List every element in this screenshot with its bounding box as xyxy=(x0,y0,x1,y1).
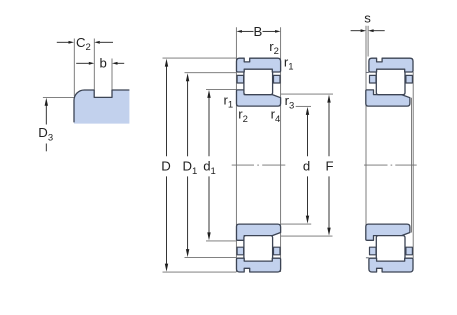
inner ring (bottom section) xyxy=(237,224,281,240)
s dimension right arrow xyxy=(373,30,384,32)
centerline right figure xyxy=(364,164,388,166)
s second extension line xyxy=(367,26,369,57)
cage right (right fig top) xyxy=(406,75,413,83)
cage right (right fig bottom) xyxy=(406,247,413,255)
outer ring (right fig bottom) xyxy=(369,258,413,272)
D3 line continuation xyxy=(45,144,47,152)
D bottom extension line xyxy=(163,271,237,273)
b dimension right arrow xyxy=(117,62,124,64)
cage left (bottom section) xyxy=(237,247,244,255)
D1 bottom extension line xyxy=(185,257,237,259)
svg-text:d1: d1 xyxy=(203,159,216,177)
inner ring right face line xyxy=(411,98,413,233)
svg-text:r1: r1 xyxy=(224,93,234,111)
roller (top section) xyxy=(244,69,273,95)
connector line top xyxy=(366,71,369,73)
svg-text:D1: D1 xyxy=(183,159,198,177)
cage left (top section) xyxy=(237,75,244,83)
svg-text:D3: D3 xyxy=(38,125,53,143)
d top extension line xyxy=(296,105,311,107)
C2 dimension left arrow xyxy=(57,41,69,43)
svg-text:B: B xyxy=(254,24,263,39)
C2/b middle extension line xyxy=(93,39,95,90)
roller (bottom section) xyxy=(244,236,273,262)
d1 dimension line xyxy=(208,98,210,157)
B left extension line xyxy=(235,27,237,272)
svg-text:r4: r4 xyxy=(271,107,281,125)
inner ring displaced left (right fig bottom) xyxy=(366,224,410,240)
outer ring right face line xyxy=(412,72,414,258)
F bottom extension line xyxy=(281,235,333,237)
d1 bottom extension line xyxy=(206,240,236,242)
d dimension line xyxy=(307,115,309,157)
svg-text:D: D xyxy=(161,159,171,174)
b right extension line xyxy=(111,59,113,90)
D1 dimension line xyxy=(187,81,189,156)
svg-text:b: b xyxy=(100,55,107,70)
svg-text:d: d xyxy=(303,159,310,174)
svg-text:s: s xyxy=(364,10,371,25)
cage right (top section) xyxy=(274,75,281,83)
svg-text:r2: r2 xyxy=(269,39,279,57)
C2 left extension line xyxy=(73,39,75,97)
F top extension line xyxy=(281,93,333,95)
groove detail section outline xyxy=(74,90,129,122)
d1 top extension line xyxy=(206,88,236,90)
cage right (bottom section) xyxy=(274,247,281,255)
middle bottom section (mirrored) xyxy=(237,224,281,272)
inner ring displaced left (right fig top) xyxy=(366,90,410,106)
roller (right fig top) xyxy=(376,69,405,95)
cage left (right fig bottom) xyxy=(370,247,377,255)
B right extension line xyxy=(280,27,282,272)
outer ring with snap ring groove (bottom section) xyxy=(237,258,281,272)
outer ring with snap ring groove (top section) xyxy=(237,58,281,72)
roller (right fig bottom) xyxy=(376,236,405,262)
D1 top extension line xyxy=(185,72,237,74)
right figure bottom section (mirrored) xyxy=(370,247,413,255)
right figure top section xyxy=(370,75,413,83)
outer ring (right fig top) xyxy=(369,58,413,72)
groove detail section fill xyxy=(74,90,129,124)
D top extension line xyxy=(163,57,237,59)
svg-text:C2: C2 xyxy=(76,35,91,53)
cage left (right fig top) xyxy=(370,75,377,83)
F dimension line xyxy=(328,103,330,157)
svg-text:r1: r1 xyxy=(284,55,294,73)
connector line bottom xyxy=(366,257,369,259)
D3 level line xyxy=(43,96,74,98)
d bottom extension line xyxy=(281,223,311,225)
svg-text:r3: r3 xyxy=(285,93,295,111)
b dimension left arrow xyxy=(76,62,89,64)
centerline middle figure xyxy=(232,164,254,166)
svg-text:r2: r2 xyxy=(238,107,248,125)
B dimension line + arrows xyxy=(242,30,254,32)
s dimension left arrow xyxy=(351,30,361,32)
svg-text:F: F xyxy=(326,159,334,174)
C2 dimension right arrow xyxy=(100,41,113,43)
D3 arrow xyxy=(45,104,47,125)
D dimension line xyxy=(166,66,168,156)
inner ring side face extension line xyxy=(365,26,367,240)
inner ring (top section) xyxy=(237,90,281,106)
